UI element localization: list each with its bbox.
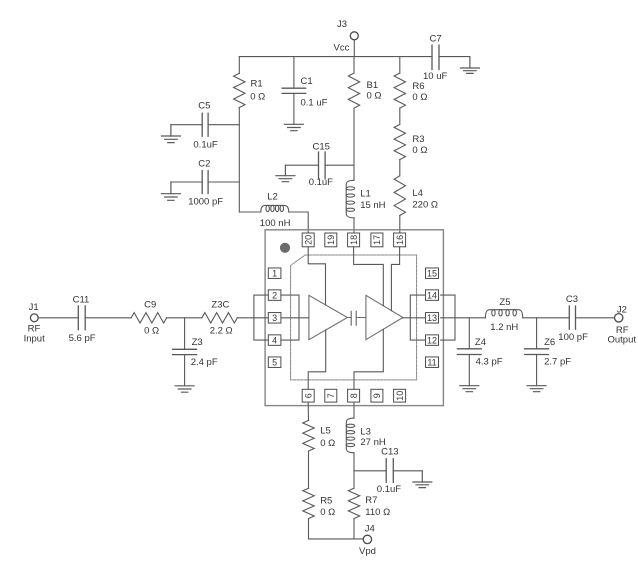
svg-text:Input: Input: [24, 334, 45, 345]
die outline: [291, 255, 417, 380]
svg-text:0.1 uF: 0.1 uF: [301, 98, 328, 109]
ground C13: [413, 471, 432, 488]
svg-text:Z3: Z3: [192, 337, 203, 348]
svg-text:C5: C5: [198, 101, 210, 112]
pin 7: [325, 389, 337, 402]
resistor R1: [234, 57, 266, 108]
svg-text:0 Ω: 0 Ω: [412, 92, 427, 103]
svg-text:Z3C: Z3C: [211, 300, 229, 311]
resistor R7: [348, 488, 390, 518]
wire pin 6 to L5: [307, 402, 309, 420]
svg-text:110 Ω: 110 Ω: [365, 507, 390, 518]
svg-text:12: 12: [427, 335, 437, 345]
connector J3: [334, 19, 359, 57]
svg-text:C3: C3: [566, 294, 578, 305]
capacitor C2: [171, 158, 239, 207]
wire R7 to J4 rail: [353, 519, 355, 539]
pin 1 indicator dot: [280, 243, 290, 253]
wire L4 to pin 16: [399, 216, 401, 234]
svg-text:C9: C9: [144, 300, 156, 311]
wire R3 to L4: [399, 160, 401, 176]
pin 1: [268, 268, 281, 279]
svg-text:C11: C11: [73, 295, 90, 306]
inductor L2: [239, 192, 290, 229]
svg-text:15: 15: [427, 268, 437, 278]
svg-text:R6: R6: [412, 81, 424, 92]
svg-text:L2: L2: [267, 192, 278, 203]
connector J4: [359, 524, 376, 558]
capacitor Z6: [525, 318, 572, 386]
svg-text:C1: C1: [301, 76, 313, 87]
wire L1 to pin 18: [353, 218, 355, 233]
svg-text:J1: J1: [29, 302, 39, 313]
wire J1 to C11: [38, 317, 78, 319]
svg-text:100 nH: 100 nH: [260, 218, 291, 229]
pin 9: [371, 389, 383, 402]
wire R6 to R3: [399, 108, 401, 124]
pin 2: [268, 290, 281, 301]
svg-text:1000 pF: 1000 pF: [188, 197, 223, 208]
pin 12: [426, 335, 439, 346]
capacitor C15: [285, 142, 354, 188]
resistor R5: [303, 488, 335, 518]
wire C9 to node / Z3C: [167, 317, 202, 319]
wire pin 8 to L3: [353, 402, 355, 418]
svg-text:L4: L4: [412, 188, 423, 199]
svg-text:11: 11: [427, 357, 436, 367]
wire pin 16 to A2: [391, 247, 399, 311]
resistor L5: [303, 420, 335, 451]
svg-text:5: 5: [272, 357, 277, 367]
svg-text:R3: R3: [412, 134, 424, 145]
op-amp U1 package outline: [265, 230, 443, 406]
amplifier A2 triangle: [366, 295, 403, 339]
svg-text:Vcc: Vcc: [334, 43, 350, 54]
svg-text:100 pF: 100 pF: [558, 332, 588, 343]
svg-text:4.3 pF: 4.3 pF: [476, 357, 503, 368]
resistor C9: [131, 300, 166, 337]
pin 20: [302, 233, 314, 247]
resistor R6: [394, 57, 427, 109]
svg-text:5.6 pF: 5.6 pF: [69, 333, 96, 344]
resistor B1: [348, 57, 381, 109]
svg-text:8: 8: [349, 393, 359, 398]
svg-text:4: 4: [272, 335, 277, 345]
svg-text:16: 16: [395, 235, 405, 245]
svg-text:C15: C15: [313, 142, 330, 153]
wire outer bracket pins 12-13-14: [441, 295, 455, 340]
svg-text:2.7 pF: 2.7 pF: [544, 357, 571, 368]
svg-text:20: 20: [303, 235, 313, 245]
capacitor C3: [558, 294, 588, 343]
capacitor C7: [423, 34, 447, 83]
svg-text:J3: J3: [337, 19, 347, 30]
svg-text:0.1uF: 0.1uF: [377, 484, 401, 495]
wire Vcc rail: [239, 56, 470, 58]
resistor L4: [394, 176, 438, 216]
svg-text:Vpd: Vpd: [359, 546, 376, 557]
wire R1 bottom / C5 C2 bus: [238, 108, 240, 213]
pin 3: [268, 313, 281, 324]
pin 16: [394, 233, 406, 247]
svg-text:R1: R1: [251, 79, 263, 90]
svg-text:C7: C7: [430, 34, 442, 45]
ground C7: [460, 57, 479, 74]
wire C3 to J2: [576, 317, 615, 319]
wire R5 to J4 rail: [309, 519, 364, 539]
svg-text:10: 10: [395, 391, 405, 401]
inductor L3: [346, 418, 386, 453]
resistor Z3C: [202, 300, 237, 337]
svg-text:0 Ω: 0 Ω: [320, 438, 335, 449]
svg-text:Z5: Z5: [499, 297, 510, 308]
pin 18: [348, 233, 360, 247]
svg-text:2.2 Ω: 2.2 Ω: [210, 326, 233, 337]
inductor Z5: [485, 297, 522, 333]
svg-text:2: 2: [272, 290, 277, 300]
interstage coupling capacitor: [347, 311, 366, 325]
ground C2: [161, 182, 180, 200]
svg-text:B1: B1: [367, 80, 379, 91]
svg-text:17: 17: [372, 235, 382, 245]
svg-text:0.1uF: 0.1uF: [309, 177, 333, 188]
svg-text:0 Ω: 0 Ω: [250, 92, 265, 103]
ground Z3: [175, 386, 194, 392]
wire bracket to Z4 node: [455, 317, 485, 319]
svg-text:C13: C13: [381, 446, 398, 457]
wire L3 to R7: [353, 453, 355, 489]
wire Z3C to bracket: [237, 317, 254, 319]
resistor R3: [394, 124, 427, 159]
wire A1 to pin 6: [308, 330, 326, 389]
svg-text:0 Ω: 0 Ω: [412, 145, 427, 156]
capacitor Z4: [457, 318, 502, 386]
svg-text:2.4 pF: 2.4 pF: [191, 357, 218, 368]
pin 5: [268, 357, 281, 368]
capacitor C1: [282, 57, 328, 125]
pin 15: [426, 268, 439, 279]
capacitor Z3: [173, 318, 218, 386]
svg-text:1.2 nH: 1.2 nH: [490, 322, 518, 333]
wire Z5 to C3: [523, 317, 570, 319]
svg-text:18: 18: [349, 235, 359, 245]
wire C11 to C9: [85, 317, 131, 319]
svg-text:15 nH: 15 nH: [360, 200, 385, 211]
svg-text:J4: J4: [365, 524, 375, 535]
inductor L1: [346, 180, 386, 218]
ground Z6: [527, 386, 546, 392]
capacitor C13: [354, 446, 422, 495]
pin 4: [268, 335, 281, 346]
pin 13: [426, 313, 439, 324]
svg-text:0 Ω: 0 Ω: [320, 507, 335, 518]
pin 11: [426, 357, 439, 368]
wire pin 20 to A1: [308, 247, 325, 305]
ground C5: [161, 125, 180, 143]
ground C1: [284, 124, 303, 130]
svg-text:Z6: Z6: [544, 337, 555, 348]
pin 17: [371, 233, 383, 247]
wire inner bracket pins 12-13-14: [403, 295, 426, 340]
svg-text:L3: L3: [360, 427, 371, 438]
svg-text:1: 1: [272, 268, 277, 278]
capacitor C5: [171, 101, 239, 151]
svg-text:L5: L5: [320, 426, 331, 437]
svg-text:9: 9: [372, 393, 382, 398]
svg-text:L1: L1: [360, 188, 371, 199]
amplifier A1 triangle: [309, 295, 348, 339]
wire A2 to pin 8: [354, 329, 383, 389]
svg-text:0.1uF: 0.1uF: [193, 140, 217, 151]
svg-text:R7: R7: [365, 495, 377, 506]
svg-text:14: 14: [427, 290, 437, 300]
svg-text:J2: J2: [617, 304, 627, 315]
svg-text:0 Ω: 0 Ω: [367, 91, 382, 102]
wire L2 to pin 20: [289, 212, 309, 233]
wire B1 to L1: [353, 108, 355, 180]
svg-text:Output: Output: [608, 334, 637, 345]
svg-text:220 Ω: 220 Ω: [412, 200, 438, 211]
pin 14: [426, 290, 439, 301]
svg-text:3: 3: [272, 313, 277, 323]
wire outer bracket pins 2-3-4: [254, 295, 268, 340]
wire L5 to R5: [308, 451, 310, 488]
pin 8: [348, 389, 360, 402]
pin 10: [394, 389, 406, 402]
svg-text:7: 7: [326, 393, 336, 398]
ground C15: [276, 165, 295, 182]
svg-text:0 Ω: 0 Ω: [144, 326, 159, 337]
svg-text:Z4: Z4: [475, 337, 486, 348]
svg-text:10 uF: 10 uF: [423, 71, 447, 82]
wire pin 18 to A2: [354, 247, 384, 306]
connector J2: [608, 304, 637, 345]
svg-text:6: 6: [303, 393, 313, 398]
ground Z4: [460, 386, 479, 392]
wire inner bracket pins 2-3-4: [281, 295, 309, 340]
pin 6: [302, 389, 314, 402]
pin 19: [325, 233, 337, 247]
svg-text:R5: R5: [320, 496, 332, 507]
svg-text:13: 13: [427, 313, 437, 323]
capacitor C11: [69, 295, 96, 344]
connector J1: [24, 302, 45, 345]
svg-text:19: 19: [326, 235, 336, 245]
svg-text:C2: C2: [198, 158, 210, 169]
